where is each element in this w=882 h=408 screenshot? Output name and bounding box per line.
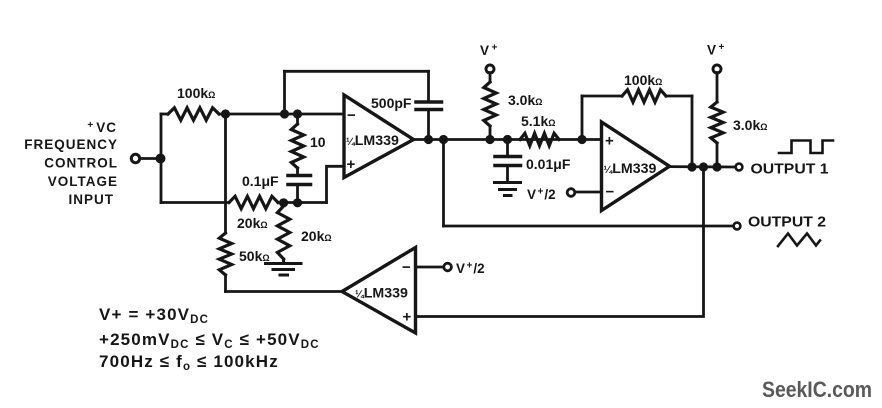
svg-text:V+: V+ [707,42,725,58]
capacitor 0.1uF [288,176,311,185]
node B [280,109,289,118]
wire [161,113,168,116]
svg-text:+250mVDC ≤ VC ≤ +50VDC: +250mVDC ≤ VC ≤ +50VDC [99,330,320,351]
resistor 100k [168,108,219,120]
wire lower rail [161,201,229,204]
svg-text:0.01μF: 0.01μF [526,156,571,172]
wire [427,110,430,140]
wire [582,95,622,98]
resistor 3.0k no.1 [484,82,496,126]
wire U3 minus to V+/2 [416,266,445,269]
label equations [99,305,320,373]
resistor 50k [219,233,231,275]
square wave symbol [779,141,833,154]
svg-text:V+/2: V+/2 [456,261,485,277]
svg-text:20kΩ: 20kΩ [237,215,268,231]
ground G1 [495,183,521,196]
node C [293,109,302,118]
svg-text:V+: V+ [480,43,498,59]
wire OUTPUT2 drop [442,140,445,227]
resistor 100k feedback [622,90,666,102]
svg-text:OUTPUT 2: OUTPUT 2 [748,215,826,231]
wire feedback riser U2 [581,96,584,140]
svg-text:700Hz ≤ fo ≤ 100kHz: 700Hz ≤ fo ≤ 100kHz [99,352,279,373]
svg-text:3.0kΩ: 3.0kΩ [733,117,767,133]
svg-text:V+/2: V+/2 [527,187,556,203]
node L [699,162,708,171]
svg-text:100kΩ: 100kΩ [624,72,662,88]
wire [278,201,327,204]
svg-text:3.0kΩ: 3.0kΩ [508,92,542,108]
wire [296,185,299,203]
wire [716,143,719,167]
node K [687,162,696,171]
node J [577,135,586,144]
svg-text:−: − [402,259,411,276]
svg-text:OUTPUT 1: OUTPUT 1 [751,162,829,178]
node F [424,135,433,144]
ground G2 [266,259,302,275]
wire feedback left riser [283,71,286,114]
terminal V+ no.1 [486,65,494,73]
svg-text:20kΩ: 20kΩ [301,228,332,244]
wire top rail [285,70,429,73]
wire [489,73,492,82]
svg-text:FREQUENCY: FREQUENCY [24,137,118,152]
capacitor 0.01uF [495,157,521,166]
op-amp U2 quarter LM339 [602,122,670,211]
label input block [24,120,118,207]
wire [219,113,344,116]
triangle wave symbol [778,234,820,247]
terminal V+/2 no.1 [567,189,575,197]
svg-text:V+ = +30VDC: V+ = +30VDC [99,305,209,326]
wire [427,71,430,101]
wire [506,166,509,182]
svg-text:+: + [403,309,412,326]
input terminal [131,154,139,162]
svg-text:100kΩ: 100kΩ [177,85,215,101]
terminal V+/2 no.2 [444,263,452,271]
wire [716,73,719,102]
node input junction [156,154,166,164]
svg-text:10: 10 [310,134,326,150]
svg-text:INPUT: INPUT [69,192,115,207]
wire [140,157,160,160]
svg-text:CONTROL: CONTROL [44,156,118,171]
svg-text:SeekIC.com: SeekIC.com [762,377,872,402]
wire [160,114,163,203]
svg-text:+: + [347,156,356,173]
node D [279,198,288,207]
svg-text:¼LM339: ¼LM339 [355,286,408,302]
wire [666,95,692,98]
node E [293,198,302,207]
terminal OUTPUT 2 [734,223,741,230]
terminal V+ no.2 [713,65,721,73]
wire U1 output [414,138,602,141]
svg-text:+VC: +VC [87,120,117,135]
svg-text:+: + [605,133,614,150]
resistor 3.0k no.2 [711,102,723,143]
op-amp U1 quarter LM339 [344,95,414,178]
node G [439,135,448,144]
wire [296,168,299,174]
node I [503,135,512,144]
svg-text:50kΩ: 50kΩ [239,248,270,264]
wire [691,96,694,167]
svg-text:5.1kΩ: 5.1kΩ [521,113,555,129]
svg-text:0.1μF: 0.1μF [242,173,279,189]
svg-text:VOLTAGE: VOLTAGE [48,174,118,189]
svg-text:500pF: 500pF [371,95,412,111]
svg-text:¼LM339: ¼LM339 [346,133,399,149]
wire comparator U3 output run [226,290,343,293]
svg-text:¼LM339: ¼LM339 [604,161,657,177]
resistor 10 [291,124,303,168]
wire OUTPUT2 run [444,225,734,228]
resistor 20k horizontal [229,196,278,208]
wire [489,126,492,140]
svg-text:−: − [347,107,356,124]
node H [485,135,494,144]
resistor 20k vertical [277,206,289,259]
wire U2 output rail [670,165,736,168]
wire U2 out to U3 plus [416,167,704,317]
wire V+/2 to U2 [575,191,602,194]
node A [221,109,230,118]
node M [712,162,721,171]
wire [224,275,227,292]
wire [296,114,299,124]
capacitor 500pF [416,102,442,110]
resistor 5.1k [520,133,559,145]
wire left column [224,114,227,233]
svg-text:−: − [606,184,615,201]
wire plus-input jog [327,166,345,202]
terminal OUTPUT 1 [736,164,743,171]
wire [506,140,509,156]
op-amp U3 quarter LM339 [342,248,416,334]
